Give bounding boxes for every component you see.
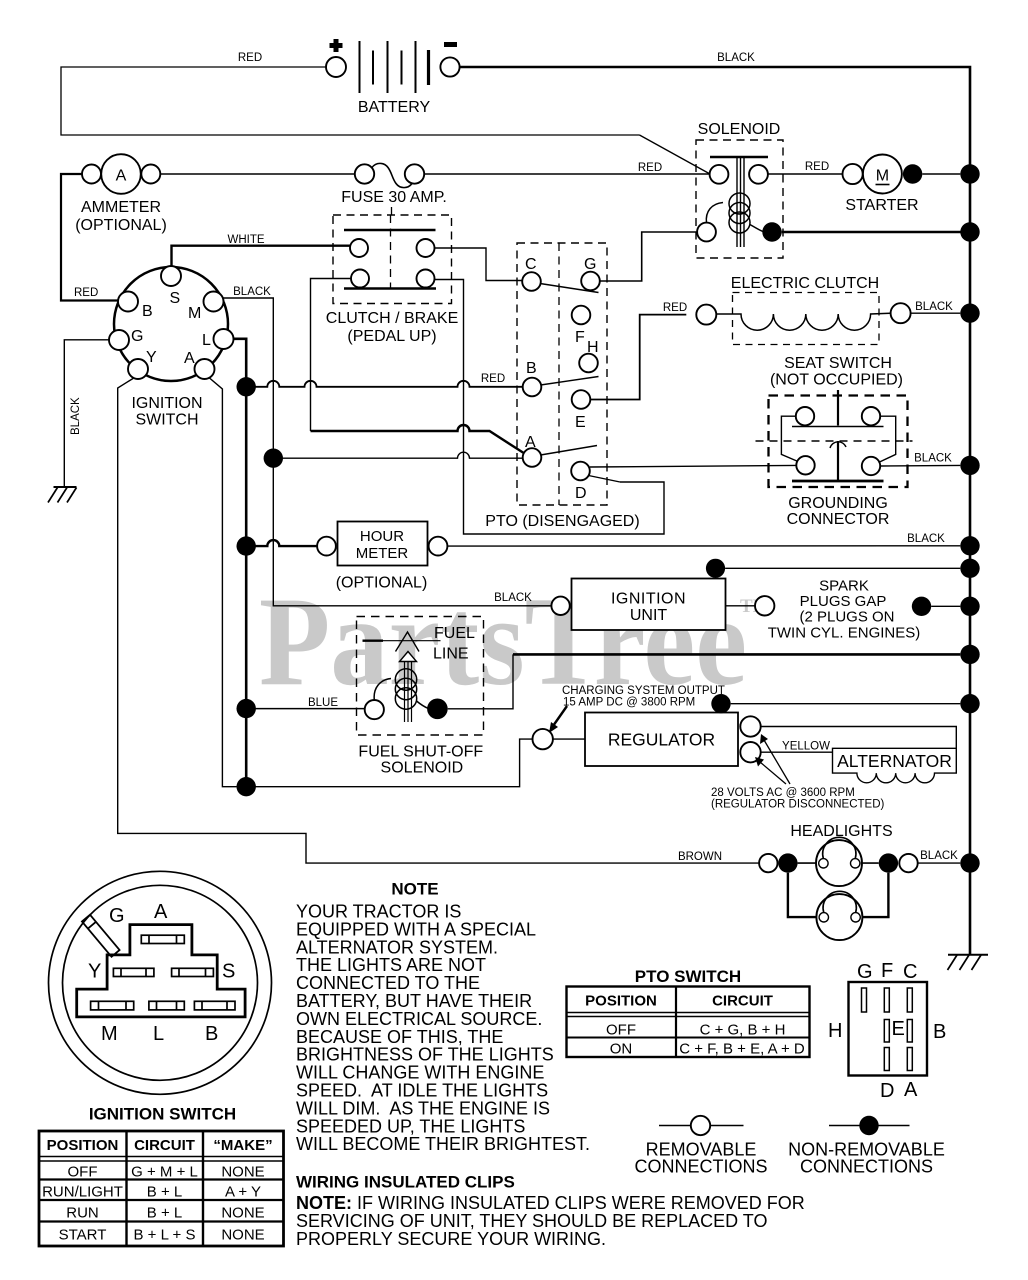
ignition switch connector inner circle — [63, 885, 258, 1080]
fuel solenoid dashed box — [357, 617, 484, 736]
wire hour meter to bus black — [447, 545, 960, 547]
junction dot A/L to regulator — [237, 777, 256, 796]
svg-text:BLACK: BLACK — [717, 52, 755, 64]
arrows to AC terminals — [764, 740, 790, 784]
wire lower headlight right drop — [862, 873, 889, 917]
svg-text:L: L — [202, 332, 211, 349]
spark plug ground dot — [912, 597, 931, 616]
junction solenoid output bus — [960, 222, 979, 241]
pto connector slot A — [907, 1048, 912, 1071]
svg-text:A: A — [904, 1079, 918, 1101]
PTO terminal C — [522, 272, 541, 291]
alternator box with coil — [833, 748, 957, 783]
wire reg terminal to box — [553, 738, 585, 740]
pto connector slot F — [884, 988, 889, 1012]
wire regulator to bus — [731, 703, 961, 705]
ground symbol right bus — [948, 954, 988, 956]
svg-text:G: G — [109, 905, 125, 927]
fuel line tick — [363, 640, 384, 642]
clutch brake center dashed line — [390, 215, 392, 288]
svg-text:CONNECTIONS: CONNECTIONS — [800, 1157, 933, 1177]
battery cell plates — [360, 41, 429, 93]
wire ammeter to fuse — [160, 173, 354, 175]
svg-text:(2 PLUGS ON: (2 PLUGS ON — [799, 609, 894, 626]
svg-text:A: A — [116, 168, 127, 185]
seat switch plunger bottom — [837, 441, 839, 481]
pto connector slot G — [862, 988, 867, 1012]
svg-text:G: G — [857, 961, 873, 983]
ignition unit ground stub — [715, 568, 717, 578]
solenoid plunger — [736, 157, 738, 247]
wire hour meter feed — [246, 540, 317, 546]
ignition switch table — [39, 1131, 284, 1246]
fuel arrow head — [400, 652, 417, 662]
ignition switch connector outer circle — [49, 871, 272, 1094]
svg-text:AMMETER: AMMETER — [81, 199, 161, 216]
wire M terminal black — [224, 298, 552, 606]
fuel solenoid right dot — [427, 699, 448, 720]
fuel solenoid coil — [374, 679, 391, 701]
label SPARK PLUGS GAP — [768, 578, 921, 642]
headlight left terminal — [759, 854, 777, 872]
svg-text:SERVICING OF UNIT, THEY SHOULD: SERVICING OF UNIT, THEY SHOULD BE REPLAC… — [296, 1211, 767, 1231]
wire PTO A feed row — [273, 452, 523, 458]
junction headlight bus — [960, 853, 979, 872]
svg-text:SOLENOID: SOLENOID — [381, 760, 464, 777]
svg-text:D: D — [575, 485, 587, 502]
svg-text:PTO SWITCH: PTO SWITCH — [635, 967, 741, 986]
wire seat switch to bus black — [880, 464, 960, 467]
junction dot M to PTO A row — [264, 449, 283, 468]
svg-text:ON: ON — [610, 1041, 633, 1058]
pto connector slot D — [884, 1048, 889, 1071]
seat switch right bracket — [879, 416, 896, 462]
ground symbol left — [54, 486, 77, 488]
svg-text:PROPERLY SECURE YOUR WIRING.: PROPERLY SECURE YOUR WIRING. — [296, 1229, 606, 1249]
svg-text:G + M + L: G + M + L — [131, 1164, 198, 1181]
svg-text:BROWN: BROWN — [678, 851, 722, 863]
wire ammeter left — [61, 174, 118, 301]
svg-text:B: B — [205, 1023, 218, 1045]
svg-text:A + Y: A + Y — [225, 1184, 261, 1201]
wire red from battery positive to left bus — [61, 67, 640, 135]
ignition unit box — [572, 579, 726, 631]
svg-text:BLACK: BLACK — [915, 301, 953, 313]
wire starter to bus — [922, 173, 960, 175]
svg-text:G: G — [584, 256, 596, 273]
svg-text:B: B — [526, 360, 537, 377]
svg-text:WIRING INSULATED CLIPS: WIRING INSULATED CLIPS — [296, 1173, 515, 1192]
svg-text:RED: RED — [638, 162, 662, 174]
svg-text:G: G — [131, 328, 143, 345]
terminal G — [109, 330, 129, 350]
wire clutch bottom-left to PTO A row — [311, 279, 352, 432]
wire regulator feed row — [246, 739, 532, 787]
wire electric clutch to bus — [911, 312, 961, 314]
svg-text:ELECTRIC CLUTCH: ELECTRIC CLUTCH — [731, 275, 879, 292]
solenoid output node dot — [762, 222, 781, 241]
starter terminal circle — [843, 164, 863, 184]
junction ignition unit top — [706, 559, 725, 578]
electric clutch left terminal — [696, 305, 716, 325]
svg-text:POSITION: POSITION — [47, 1137, 119, 1154]
svg-text:S: S — [222, 961, 235, 983]
svg-text:OFF: OFF — [68, 1164, 98, 1181]
svg-text:START: START — [59, 1227, 107, 1244]
stub fuse label to clutch box — [391, 207, 393, 215]
wire PTO D to seat switch — [590, 465, 797, 467]
electric clutch dashed box — [733, 293, 880, 345]
fuse 30 amp — [355, 164, 374, 183]
wire fuel solenoid to bus — [448, 654, 513, 708]
junction starter bus — [960, 164, 979, 183]
starter node dot — [903, 164, 922, 183]
svg-text:S: S — [170, 290, 181, 307]
wire thick clutch to PTO A — [311, 425, 525, 454]
svg-text:(REGULATOR DISCONNECTED): (REGULATOR DISCONNECTED) — [711, 799, 885, 811]
wire clutch top-right to PTO C — [435, 248, 523, 281]
svg-text:C: C — [903, 961, 917, 983]
svg-text:BLUE: BLUE — [308, 697, 338, 709]
charging label arrow — [553, 706, 567, 726]
svg-text:(OPTIONAL): (OPTIONAL) — [75, 217, 167, 234]
wire clutch bottom-right to PTO D loop — [435, 280, 665, 535]
terminal M — [204, 292, 224, 312]
seat switch left bracket — [781, 416, 798, 461]
svg-text:F: F — [575, 329, 585, 346]
slot S — [172, 968, 214, 976]
clutch brake top contact bar — [344, 229, 436, 232]
clutch terminal bottom-right — [417, 270, 435, 288]
svg-text:CIRCUIT: CIRCUIT — [712, 993, 773, 1010]
regulator AC terminal bottom — [740, 742, 760, 762]
svg-text:B: B — [142, 303, 153, 320]
wire ignition unit to bus — [725, 567, 960, 569]
clutch brake bottom contact bar — [344, 287, 436, 290]
svg-text:A: A — [154, 901, 168, 923]
svg-text:WILL BECOME THEIR BRIGHTEST.: WILL BECOME THEIR BRIGHTEST. — [296, 1134, 590, 1154]
PTO blade A — [541, 446, 598, 456]
electric clutch coil — [716, 313, 890, 330]
battery positive terminal circle — [326, 57, 346, 77]
svg-text:ALTERNATOR: ALTERNATOR — [837, 751, 952, 771]
pto connector slot C — [907, 988, 912, 1012]
svg-text:Y: Y — [146, 349, 157, 366]
seat switch top contact bar — [792, 426, 884, 428]
svg-text:28 VOLTS AC @ 3600 RPM: 28 VOLTS AC @ 3600 RPM — [711, 787, 855, 799]
wire spark ground to bus — [931, 605, 960, 607]
svg-text:C + G, B + H: C + G, B + H — [700, 1022, 786, 1039]
solenoid top bar — [710, 156, 768, 159]
svg-text:SWITCH: SWITCH — [135, 412, 198, 429]
svg-text:PTO (DISENGAGED): PTO (DISENGAGED) — [485, 513, 639, 530]
wire lower headlight left drop — [788, 873, 817, 917]
connector key G — [82, 915, 120, 957]
ignition unit left terminal — [551, 597, 569, 615]
hour meter left terminal — [317, 537, 336, 556]
pto connector slot C2 — [907, 1020, 912, 1043]
headlight left node dot — [778, 853, 797, 872]
svg-text:FUEL SHUT-OFF: FUEL SHUT-OFF — [358, 744, 483, 761]
junction ignition unit bus — [960, 559, 979, 578]
wire black battery negative to right bus — [460, 67, 970, 955]
seat switch terminal bottom-left — [796, 456, 814, 474]
svg-text:BATTERY: BATTERY — [358, 99, 431, 116]
seat switch dashed box — [769, 396, 908, 488]
wire alternator top — [761, 727, 957, 749]
wire dot to top headlight — [798, 862, 817, 864]
svg-text:F: F — [881, 960, 893, 982]
junction fuel wire bus — [960, 645, 979, 664]
junction electric clutch bus — [960, 304, 979, 323]
svg-text:A: A — [525, 434, 536, 451]
svg-text:C + F, B + E, A + D: C + F, B + E, A + D — [679, 1041, 805, 1058]
svg-text:SEAT SWITCH: SEAT SWITCH — [784, 355, 892, 372]
seat switch terminal top-right — [862, 407, 880, 425]
svg-text:GROUNDING: GROUNDING — [788, 495, 888, 512]
wire diagonal battery feed to solenoid left terminal — [640, 135, 711, 174]
wire PTO E to electric clutch — [590, 315, 686, 400]
PTO terminal E — [572, 390, 591, 409]
svg-text:RUN/LIGHT: RUN/LIGHT — [42, 1184, 123, 1201]
wire G terminal to ground — [64, 340, 109, 487]
wire solenoid output to bus — [782, 231, 970, 234]
PTO blade D — [589, 476, 621, 483]
junction hour meter bus — [960, 536, 979, 555]
seat switch bottom bar — [792, 480, 884, 483]
solenoid left terminal — [710, 165, 729, 184]
seat switch terminal top-left — [796, 407, 814, 425]
svg-text:A: A — [184, 350, 195, 367]
connector stepped body — [77, 925, 245, 1017]
terminal Y — [128, 359, 148, 379]
seat switch dashed midline — [756, 440, 913, 442]
wire solenoid to PTO G — [600, 232, 697, 281]
wire headlight to bus — [918, 862, 961, 864]
ammeter right terminal — [141, 165, 160, 184]
clutch brake dashed box — [333, 215, 452, 304]
svg-text:B + L: B + L — [147, 1184, 182, 1201]
solenoid coil terminal circle — [697, 223, 716, 242]
svg-text:BLACK: BLACK — [920, 850, 958, 862]
svg-text:SOLENOID: SOLENOID — [698, 121, 781, 138]
solenoid coil — [706, 203, 723, 224]
svg-text:BLACK: BLACK — [233, 286, 271, 298]
PTO terminal A — [523, 448, 542, 467]
seat switch pivot arc — [830, 442, 846, 448]
solenoid right terminal — [749, 165, 768, 184]
terminal B — [118, 292, 138, 312]
svg-text:REGULATOR: REGULATOR — [608, 730, 715, 750]
svg-text:(PEDAL UP): (PEDAL UP) — [347, 328, 436, 345]
wire A terminal down — [210, 378, 237, 787]
svg-text:NOTE: NOTE — [391, 880, 438, 899]
svg-text:TWIN CYL. ENGINES): TWIN CYL. ENGINES) — [768, 625, 921, 642]
pto connector slot F2 — [884, 1020, 889, 1043]
svg-text:M: M — [876, 168, 889, 185]
svg-text:H: H — [587, 339, 599, 356]
svg-text:B + L + S: B + L + S — [134, 1227, 196, 1244]
svg-text:BLACK: BLACK — [70, 397, 82, 435]
clutch terminal top-left — [350, 239, 368, 257]
wire alternator yellow — [761, 751, 833, 753]
lower headlight lamp — [816, 894, 862, 940]
PTO terminal B — [523, 378, 542, 397]
removable connection symbol — [659, 1125, 744, 1127]
seat switch plunger top — [837, 390, 839, 426]
note paragraph — [296, 902, 590, 1155]
regulator input terminal — [533, 729, 553, 749]
fuel line chevron — [396, 632, 420, 652]
svg-text:CONNECTIONS: CONNECTIONS — [634, 1157, 767, 1177]
slot B — [194, 1001, 235, 1010]
seat switch terminal bottom-right — [862, 457, 880, 475]
svg-text:RED: RED — [481, 373, 505, 385]
wire fuse to solenoid left terminal — [424, 173, 709, 175]
wire fuel solenoid blue — [246, 708, 365, 710]
starter motor M — [863, 155, 902, 194]
watermark PartsTree — [259, 572, 771, 712]
wire ignition unit to spark plug — [726, 605, 756, 607]
svg-text:FUEL: FUEL — [434, 625, 475, 642]
battery plus sign — [330, 39, 343, 52]
solenoid dashed box — [696, 140, 783, 258]
terminal S — [161, 266, 181, 286]
slot M — [91, 1001, 134, 1010]
svg-text:CIRCUIT: CIRCUIT — [134, 1137, 195, 1154]
wire PTO B feed row — [246, 381, 523, 387]
fuel arrow shaft — [404, 662, 406, 723]
svg-text:RED: RED — [805, 161, 829, 173]
PTO terminal G — [581, 272, 600, 291]
svg-text:E: E — [575, 414, 586, 431]
svg-text:YELLOW: YELLOW — [782, 741, 830, 753]
svg-text:IGNITION: IGNITION — [611, 591, 686, 608]
svg-text:BLACK: BLACK — [494, 592, 532, 604]
svg-text:L: L — [153, 1023, 164, 1045]
PTO terminal D — [571, 462, 590, 481]
spark plug terminal — [755, 596, 774, 615]
junction seat switch bus — [960, 456, 979, 475]
svg-text:“MAKE”: “MAKE” — [213, 1137, 272, 1154]
slot A — [141, 935, 184, 943]
svg-text:IGNITION SWITCH: IGNITION SWITCH — [89, 1105, 236, 1124]
PTO terminal H — [579, 354, 598, 373]
svg-text:E: E — [892, 1018, 905, 1040]
svg-text:M: M — [188, 305, 201, 322]
junction regulator top — [711, 694, 730, 713]
svg-text:(OPTIONAL): (OPTIONAL) — [336, 575, 428, 592]
svg-text:BLACK: BLACK — [914, 453, 952, 465]
junction dot L to fuel solenoid blue — [237, 699, 256, 718]
wire solenoid to starter — [768, 173, 843, 175]
pto switch table — [567, 987, 810, 1058]
svg-text:BLACK: BLACK — [907, 533, 945, 545]
svg-text:(NOT OCCUPIED): (NOT OCCUPIED) — [770, 372, 903, 389]
regulator ground stub — [720, 704, 722, 713]
hour meter box — [338, 522, 428, 566]
svg-text:LINE: LINE — [433, 646, 469, 663]
pto connector box — [849, 982, 928, 1076]
junction dot L to hour meter — [237, 536, 256, 555]
svg-text:RED: RED — [238, 52, 262, 64]
clutch terminal top-right — [417, 239, 435, 257]
svg-text:CLUTCH / BRAKE: CLUTCH / BRAKE — [326, 310, 458, 327]
PTO terminal F — [572, 306, 591, 325]
fuel solenoid left terminal — [365, 700, 384, 719]
svg-text:CONNECTOR: CONNECTOR — [787, 511, 890, 528]
non-removable connection symbol — [829, 1125, 910, 1127]
svg-text:Y: Y — [88, 961, 101, 983]
clutch terminal bottom-left — [351, 270, 369, 288]
svg-text:D: D — [880, 1080, 894, 1102]
junction spark bus — [960, 597, 979, 616]
junction dot L to PTO B row — [237, 377, 256, 396]
svg-text:STARTER: STARTER — [845, 197, 918, 214]
terminal L — [214, 329, 234, 349]
label CHARGING SYSTEM OUTPUT — [562, 685, 725, 709]
svg-text:C: C — [525, 256, 537, 273]
svg-text:NONE: NONE — [221, 1164, 264, 1181]
svg-text:NOTE: IF WIRING INSULATED CLIP: NOTE: IF WIRING INSULATED CLIPS WERE REM… — [296, 1193, 805, 1213]
ammeter left terminal — [82, 165, 101, 184]
svg-text:H: H — [828, 1020, 842, 1042]
svg-text:NONE: NONE — [221, 1227, 264, 1244]
wire Y terminal to headlights brown — [118, 379, 759, 864]
svg-text:SPARK: SPARK — [819, 578, 869, 595]
svg-text:B: B — [933, 1021, 946, 1043]
svg-text:M: M — [101, 1023, 118, 1045]
svg-text:RED: RED — [74, 287, 98, 299]
wire S terminal white — [172, 246, 351, 266]
headlight right node dot — [879, 853, 898, 872]
svg-text:CHARGING SYSTEM OUTPUT: CHARGING SYSTEM OUTPUT — [562, 685, 725, 697]
PTO inner dashed line — [558, 243, 560, 505]
PTO switch dashed box — [517, 243, 607, 505]
regulator box — [585, 713, 738, 767]
regulator AC terminal top — [740, 716, 760, 736]
PTO blade C-G — [540, 284, 599, 293]
svg-text:B + L: B + L — [147, 1205, 182, 1222]
wire L terminal main feed — [234, 339, 247, 787]
junction regulator bus — [960, 694, 979, 713]
ammeter A meter — [101, 154, 141, 194]
slot L — [149, 1001, 184, 1010]
battery minus sign — [444, 42, 457, 47]
svg-text:HOUR: HOUR — [360, 528, 404, 545]
svg-text:OFF: OFF — [606, 1022, 636, 1039]
wire top headlight to right dot — [861, 862, 879, 864]
top headlight lamp — [816, 840, 862, 886]
svg-text:IGNITION: IGNITION — [131, 395, 202, 412]
svg-text:METER: METER — [356, 545, 409, 562]
svg-text:PLUGS GAP: PLUGS GAP — [800, 593, 887, 610]
terminal A — [195, 359, 215, 379]
svg-text:POSITION: POSITION — [585, 993, 657, 1010]
svg-text:FUSE 30 AMP.: FUSE 30 AMP. — [341, 189, 447, 206]
label 28 VOLTS AC — [711, 787, 885, 811]
svg-text:15 AMP DC @ 3800 RPM: 15 AMP DC @ 3800 RPM — [563, 697, 695, 709]
svg-text:RUN: RUN — [66, 1205, 99, 1222]
PTO blade B-H — [541, 377, 599, 386]
svg-text:UNIT: UNIT — [630, 607, 668, 624]
svg-text:RED: RED — [663, 302, 687, 314]
svg-text:NONE: NONE — [221, 1205, 264, 1222]
hour meter right terminal — [429, 537, 448, 556]
ignition switch body circle — [114, 267, 228, 381]
electric clutch right terminal — [891, 303, 911, 323]
battery negative terminal circle — [440, 57, 459, 76]
